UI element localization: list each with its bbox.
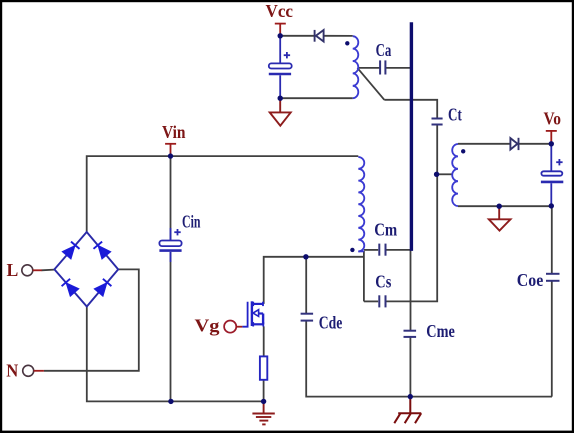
capacitor Cde — [301, 314, 314, 321]
terminal Vg red stub — [236, 326, 242, 328]
wire secondary top to Vo diode — [458, 143, 510, 145]
svg-text:Cin: Cin — [182, 212, 201, 232]
border frame — [0, 0, 574, 2]
svg-text:Cs: Cs — [375, 272, 391, 292]
capacitor Ca — [380, 60, 385, 74]
capacitor Cin electrolytic — [159, 228, 181, 262]
wire Ct bottom down to Cs row corner — [386, 125, 437, 301]
aux winding — [353, 36, 359, 98]
thick bus line — [410, 22, 413, 251]
svg-text:Coe: Coe — [517, 270, 544, 290]
node Vo bottom — [549, 203, 554, 208]
wire drain from primary bottom to MOSFET — [264, 257, 364, 304]
capacitor Cm — [379, 244, 385, 256]
primary winding bottom hook — [358, 250, 364, 252]
earth ground (source) — [252, 401, 274, 424]
ground (Vcc) triangle — [270, 98, 291, 126]
resistor R1 — [260, 356, 267, 379]
wire primary bottom riser to Cs row — [363, 251, 365, 301]
Vcc tick and stub — [275, 24, 286, 36]
wire Cde lower lead and right ground rail — [306, 321, 552, 396]
node Cde top — [303, 254, 308, 259]
wire Cde upper lead — [305, 257, 307, 313]
wire resistor to left rail — [263, 380, 265, 402]
wire Cm row right to bus — [386, 249, 412, 251]
wire to Ct top — [384, 100, 437, 118]
primary polarity dot — [350, 248, 354, 252]
capacitor Cme — [404, 331, 417, 337]
node secondary tap — [434, 172, 439, 177]
terminal N circle — [23, 365, 34, 376]
wire Cs left plate to riser — [364, 300, 378, 302]
capacitor Vcc electrolytic — [269, 36, 292, 98]
diode aux (cathode left) — [315, 30, 324, 42]
wire diagonal from aux tap — [357, 68, 384, 100]
svg-text:L: L — [7, 260, 19, 280]
wire L to bridge left vertex — [42, 269, 55, 272]
Vo tick and stub — [546, 131, 557, 144]
wire Vo diode to Vo node — [518, 143, 551, 145]
secondary polarity dot — [461, 149, 465, 153]
chassis ground — [394, 397, 421, 424]
capacitor Ct — [432, 119, 443, 125]
terminal Vg circle — [224, 321, 236, 333]
wire Coe lower lead to right rail — [551, 281, 553, 397]
primary winding — [358, 157, 364, 251]
node Vcc top — [278, 33, 283, 38]
capacitor Coe — [546, 274, 560, 281]
wire Ca to thick bus — [386, 67, 412, 69]
MOSFET Q1 — [242, 301, 263, 326]
wire N to bridge right vertex — [44, 269, 139, 370]
wire aux diode to aux winding top — [324, 35, 353, 37]
wire Coe vertical upper lead — [551, 206, 553, 274]
wire secondary tap — [437, 173, 453, 175]
svg-text:Vg: Vg — [195, 316, 220, 336]
svg-text:Cme: Cme — [426, 321, 455, 341]
wire Vin vertical to Cin — [170, 156, 172, 240]
wire Vcc bottom to aux winding bottom — [280, 97, 353, 99]
svg-text:Vin: Vin — [162, 122, 186, 142]
terminal L circle — [22, 265, 33, 276]
wire MOSFET source to resistor — [263, 326, 265, 356]
wire aux tap to Ca — [357, 67, 379, 69]
wire bridge bottom riser and left ground rail — [87, 307, 264, 402]
node Cin bottom — [168, 399, 173, 404]
bridge diode D1 top-left — [63, 242, 79, 259]
bridge diode D3 bottom-left — [62, 279, 78, 296]
secondary winding — [452, 144, 458, 206]
bridge diode D2 top-right — [94, 242, 110, 259]
node Vo — [549, 141, 554, 146]
svg-text:Cm: Cm — [374, 220, 397, 240]
bridge diode D4 bottom-right — [95, 279, 111, 296]
svg-text:Cde: Cde — [319, 312, 343, 332]
diode Vo (cathode right) — [510, 138, 518, 150]
capacitor Vo electrolytic — [541, 144, 563, 206]
node Vin — [168, 153, 173, 158]
svg-text:Ct: Ct — [448, 105, 462, 125]
node Cme bottom — [408, 394, 413, 399]
aux polarity dot — [345, 41, 349, 45]
wire Cm row left — [364, 249, 378, 251]
terminal L red stub — [33, 269, 42, 271]
svg-text:N: N — [6, 361, 18, 381]
ground (secondary) triangle — [489, 206, 511, 230]
node Vcc bottom — [278, 96, 283, 101]
wire secondary bottom rail — [458, 205, 551, 207]
wire top rail from bridge top to primary winding top — [87, 156, 359, 232]
Vin tick and stub — [165, 144, 176, 156]
bridge rectifier edges — [54, 232, 118, 307]
svg-text:Ca: Ca — [376, 40, 392, 60]
capacitor Cs — [379, 295, 385, 307]
wire Vcc node to aux diode — [280, 35, 314, 37]
node source — [261, 399, 266, 404]
wire Cme vertical lead — [410, 250, 412, 331]
node secondary ground — [497, 204, 502, 209]
wire Cme bottom lead — [409, 337, 411, 397]
svg-text:Vcc: Vcc — [266, 1, 294, 21]
wire Cin to left rail — [170, 252, 172, 401]
svg-text:Vo: Vo — [544, 109, 562, 129]
terminal N red stub — [34, 370, 44, 372]
